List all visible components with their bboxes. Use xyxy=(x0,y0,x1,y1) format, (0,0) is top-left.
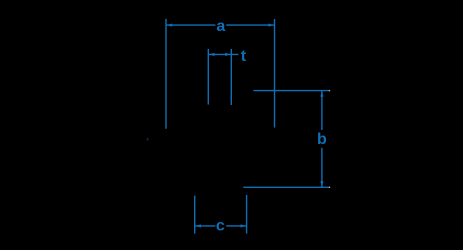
svg-text:t: t xyxy=(241,48,247,65)
svg-text:c: c xyxy=(216,218,225,235)
svg-text:b: b xyxy=(317,131,327,148)
svg-text:a: a xyxy=(216,18,225,35)
